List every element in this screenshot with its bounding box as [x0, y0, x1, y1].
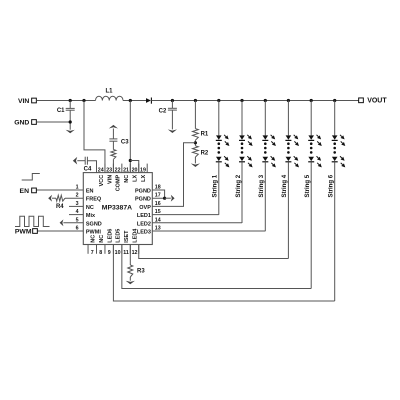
svg-text:VIN: VIN [18, 98, 29, 105]
svg-text:PGND: PGND [135, 189, 151, 195]
svg-text:21: 21 [123, 168, 129, 174]
svg-text:String 4: String 4 [281, 174, 288, 197]
svg-text:NC: NC [90, 235, 96, 243]
svg-text:LX: LX [141, 174, 147, 181]
svg-text:LX: LX [133, 174, 139, 181]
svg-text:PGND: PGND [135, 197, 151, 203]
svg-text:VIN: VIN [107, 175, 113, 184]
svg-text:NC: NC [124, 175, 130, 183]
svg-text:11: 11 [123, 250, 129, 256]
svg-text:EN: EN [20, 188, 30, 195]
svg-text:R2: R2 [201, 150, 209, 156]
svg-text:PWM: PWM [15, 229, 32, 236]
svg-text:LED4: LED4 [133, 228, 139, 243]
svg-text:Mix: Mix [86, 213, 96, 219]
svg-text:8: 8 [99, 250, 102, 256]
svg-text:LED3: LED3 [137, 230, 151, 236]
svg-text:VOUT: VOUT [367, 98, 387, 105]
svg-text:FREQ: FREQ [86, 197, 102, 203]
svg-text:16: 16 [155, 201, 161, 207]
svg-text:12: 12 [132, 250, 138, 256]
svg-text:String 5: String 5 [304, 174, 311, 197]
svg-text:13: 13 [155, 226, 161, 232]
svg-text:22: 22 [115, 168, 121, 174]
svg-text:7: 7 [91, 250, 94, 256]
svg-text:20: 20 [132, 168, 138, 174]
svg-text:OVP: OVP [139, 205, 151, 211]
svg-text:R4: R4 [56, 204, 64, 210]
svg-text:PWMI: PWMI [86, 230, 101, 236]
svg-text:NC: NC [99, 235, 105, 243]
svg-text:10: 10 [115, 250, 121, 256]
svg-text:1: 1 [76, 185, 79, 191]
svg-text:LED5: LED5 [116, 229, 122, 243]
svg-text:String 2: String 2 [235, 174, 242, 197]
svg-text:C4: C4 [84, 167, 92, 173]
svg-text:MP3387A: MP3387A [102, 205, 132, 212]
svg-text:LED6: LED6 [107, 229, 113, 243]
svg-text:15: 15 [155, 209, 161, 215]
svg-text:6: 6 [76, 226, 79, 232]
svg-text:R3: R3 [137, 269, 145, 275]
svg-text:C1: C1 [57, 108, 65, 114]
svg-text:String 6: String 6 [328, 174, 335, 197]
svg-text:3: 3 [76, 201, 79, 207]
svg-text:COMP: COMP [116, 174, 122, 191]
svg-text:EN: EN [86, 189, 94, 195]
svg-text:2: 2 [76, 193, 79, 199]
svg-text:R1: R1 [201, 131, 209, 137]
svg-text:4: 4 [76, 209, 79, 215]
svg-text:LED1: LED1 [137, 213, 151, 219]
svg-text:NC: NC [86, 205, 94, 211]
svg-text:C2: C2 [159, 109, 167, 115]
svg-text:String 1: String 1 [212, 174, 219, 197]
svg-text:GND: GND [14, 119, 29, 126]
svg-text:23: 23 [106, 168, 112, 174]
svg-text:5: 5 [76, 217, 79, 223]
svg-text:24: 24 [98, 168, 104, 174]
svg-text:ISET: ISET [124, 230, 130, 243]
svg-text:String 3: String 3 [258, 174, 265, 197]
svg-text:C3: C3 [121, 139, 129, 145]
svg-text:18: 18 [155, 185, 161, 191]
svg-text:14: 14 [155, 217, 161, 223]
svg-text:VCC: VCC [99, 175, 105, 187]
svg-text:L1: L1 [105, 89, 113, 95]
svg-text:19: 19 [140, 168, 146, 174]
svg-text:9: 9 [108, 250, 111, 256]
svg-text:SGND: SGND [86, 221, 102, 227]
svg-text:17: 17 [155, 193, 161, 199]
svg-text:LED2: LED2 [137, 221, 151, 227]
